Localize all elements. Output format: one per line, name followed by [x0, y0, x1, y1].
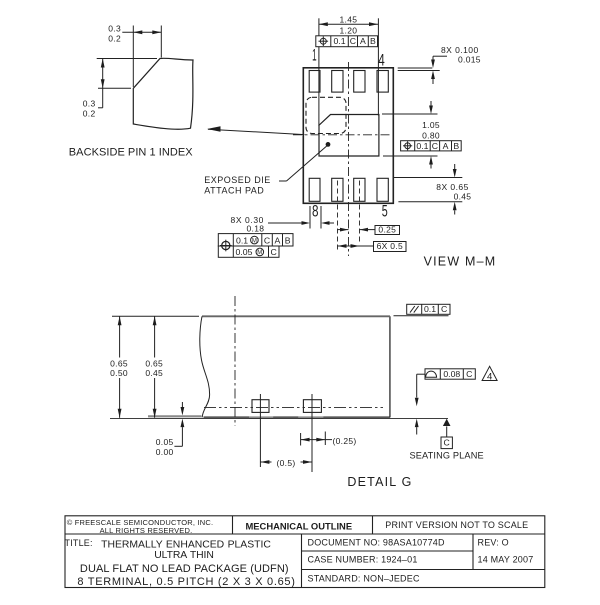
svg-text:C: C [444, 438, 450, 448]
svg-text:(0.5): (0.5) [277, 458, 296, 468]
svg-text:1.20: 1.20 [340, 25, 358, 35]
svg-text:BACKSIDE PIN 1 INDEX: BACKSIDE PIN 1 INDEX [69, 147, 193, 159]
terminal 2 centerline [311, 394, 313, 472]
svg-text:EXPOSED DIE: EXPOSED DIE [204, 175, 271, 185]
terminal 2 cross-section rect [303, 400, 321, 413]
vertical dash-dot datum line in side view [234, 296, 236, 426]
svg-text:TITLE:: TITLE: [65, 538, 93, 548]
svg-text:0.05: 0.05 [236, 247, 253, 257]
datum C box [441, 437, 452, 449]
svg-text:14 MAY 2007: 14 MAY 2007 [478, 554, 534, 564]
svg-text:ALL RIGHTS RESERVED.: ALL RIGHTS RESERVED. [100, 526, 193, 535]
svg-text:C: C [264, 235, 270, 245]
white backgrounds for height dim texts [108, 358, 130, 379]
svg-text:C: C [441, 304, 447, 314]
pin 7 centerline (dashed) [337, 181, 339, 252]
pin 2 (top row) [332, 71, 343, 93]
svg-text:5: 5 [382, 203, 388, 221]
svg-text:M: M [257, 250, 262, 256]
svg-text:CASE NUMBER: 1924–01: CASE NUMBER: 1924–01 [308, 554, 418, 564]
svg-text:0.45: 0.45 [145, 368, 163, 378]
svg-text:(0.25): (0.25) [333, 436, 357, 446]
svg-text:THERMALLY ENHANCED PLASTIC: THERMALLY ENHANCED PLASTIC [101, 540, 271, 551]
svg-text:6X 0.5: 6X 0.5 [377, 241, 403, 251]
pin 3 (top row) [354, 71, 365, 93]
title block row line under document no [302, 550, 474, 552]
svg-text:SEATING PLANE: SEATING PLANE [410, 451, 484, 461]
svg-text:A: A [443, 141, 449, 151]
dimension 8X 0.100/0.015: extension lines and arrows [433, 55, 447, 57]
title block divider document | rev [472, 534, 474, 570]
svg-text:MECHANICAL OUTLINE: MECHANICAL OUTLINE [245, 521, 352, 532]
svg-text:0.2: 0.2 [108, 33, 121, 43]
title block divider mechanical outline | print version [372, 516, 374, 534]
leader from coplanarity frame down to terminal line [417, 373, 425, 375]
svg-text:A: A [275, 235, 281, 245]
pin 8 (bottom row) [309, 178, 320, 201]
dimension 8X 0.30/0.18: extension lines and arrows [309, 206, 311, 229]
svg-text:B: B [453, 141, 459, 151]
dimension (0.25) line and arrows [301, 439, 326, 441]
svg-text:8X 0.100: 8X 0.100 [441, 45, 479, 55]
title block row line under case number [302, 569, 545, 571]
svg-text:DETAIL G: DETAIL G [347, 475, 412, 489]
svg-text:M: M [252, 238, 257, 244]
seating plane datum symbol (filled triangle) [443, 419, 451, 426]
svg-text:0.3: 0.3 [108, 23, 121, 33]
title block divider copyright | mechanical outline [232, 516, 234, 534]
svg-text:C: C [350, 36, 356, 46]
backside detail: horizontal extension lines for vertical dim [97, 58, 157, 60]
svg-text:DUAL FLAT NO LEAD PACKAGE (UDF: DUAL FLAT NO LEAD PACKAGE (UDFN) [80, 563, 289, 575]
dimension 0.65/0.45 line and arrows [154, 316, 156, 418]
feature control frame (top): position 0.1 C A B [316, 36, 378, 47]
svg-text:0.08: 0.08 [443, 369, 460, 379]
svg-text:0.2: 0.2 [83, 108, 96, 118]
top edge extension to left (for height dims) [112, 315, 199, 317]
svg-text:0.1: 0.1 [416, 141, 428, 151]
white background for (0.5) text [272, 457, 301, 468]
svg-text:0.1: 0.1 [424, 304, 436, 314]
svg-text:8: 8 [312, 203, 319, 221]
svg-text:0.3: 0.3 [83, 98, 96, 108]
terminal pad bottom segments (gray) [148, 415, 202, 417]
title block row line under header [65, 533, 545, 535]
terminal 1 cross-section rect [252, 400, 269, 413]
reference box 6X 0.5 [374, 242, 407, 252]
pin 6 centerline (dashed) [359, 181, 361, 243]
horizontal dash-dot-dot line through terminals [204, 406, 385, 408]
svg-text:4: 4 [487, 371, 493, 382]
vertical centerline of package [348, 62, 350, 256]
dimension 1.45/1.20: extension lines [318, 18, 320, 126]
dimension 0.25 (pad to pin center): arrows and leader to box [337, 229, 349, 231]
svg-text:ATTACH PAD: ATTACH PAD [204, 185, 264, 195]
backside detail: 0.3/0.2 vertical dim line, arrows and leader [102, 59, 104, 108]
dimension 8X 0.65/0.45: extension lines and arrows [394, 177, 462, 179]
svg-text:0.1: 0.1 [236, 235, 248, 245]
backside pin 1 index pad shape [133, 58, 193, 129]
svg-text:0.015: 0.015 [458, 55, 481, 65]
svg-text:PRINT VERSION NOT TO SCALE: PRINT VERSION NOT TO SCALE [385, 520, 528, 530]
backside detail: 0.3/0.2 horizontal dim line and arrows [122, 31, 161, 33]
parallelism frame // 0.1 C [407, 304, 450, 314]
svg-text:0.05: 0.05 [156, 437, 174, 447]
title block divider title | document [301, 534, 303, 588]
svg-text:0.00: 0.00 [156, 447, 174, 457]
reference box 0.25 [375, 226, 400, 235]
thermal via dot on die pad [326, 142, 331, 147]
note triangle 4 [482, 366, 497, 380]
leader arrow to backside pin 1 index detail [208, 129, 305, 134]
svg-text:C: C [271, 247, 277, 257]
exposed die attach pad (solid, chamfered corner) [319, 115, 379, 157]
break line (wavy) on left of side view [200, 316, 210, 417]
svg-text:ULTRA THIN: ULTRA THIN [154, 550, 213, 561]
svg-text:0.65: 0.65 [145, 358, 163, 368]
horizontal centerline of package [293, 134, 390, 136]
pin 6 (bottom row) [354, 178, 365, 201]
svg-text:4: 4 [378, 51, 385, 69]
feature control frame (bottom, two rows): position 0.1(M) C A B / 0.05(M) C [218, 234, 293, 258]
dimension 0.05/0.00 arrows and leader [181, 402, 183, 407]
svg-text:8X 0.65: 8X 0.65 [436, 182, 468, 192]
svg-text:0.25: 0.25 [378, 225, 396, 235]
dimension 1.45/1.20: dimension line and arrows [319, 23, 378, 25]
package body outline (top view) [303, 68, 393, 204]
svg-text:STANDARD: NON–JEDEC: STANDARD: NON–JEDEC [308, 574, 420, 584]
svg-text:0.50: 0.50 [110, 368, 128, 378]
top edge extension to right (for parallelism callout) [394, 315, 449, 317]
svg-text:C: C [432, 141, 438, 151]
svg-text:1.05: 1.05 [422, 120, 440, 130]
svg-text:0.80: 0.80 [422, 131, 440, 141]
svg-text:8 TERMINAL, 0.5 PITCH (2 X 3 X: 8 TERMINAL, 0.5 PITCH (2 X 3 X 0.65) [77, 576, 295, 588]
pin 5 (bottom row) [377, 178, 388, 201]
title block outer border [65, 516, 545, 588]
coplanarity frame (half-moon) 0.08 C [425, 369, 475, 379]
backside detail: extension line right (chamfer top vertical) [160, 26, 162, 58]
pin 4 (top row) [377, 71, 388, 93]
dimension 1.05/0.80: extension lines and arrows [382, 113, 438, 115]
svg-text:0.1: 0.1 [333, 36, 345, 46]
pin 1 (top row) [309, 71, 320, 93]
svg-text:DOCUMENT NO: 98ASA10774D: DOCUMENT NO: 98ASA10774D [308, 538, 445, 548]
svg-text:A: A [360, 36, 366, 46]
side view body bottom edge [204, 416, 391, 418]
svg-text:1.45: 1.45 [340, 15, 358, 25]
dimension (0.5) line and arrows [260, 461, 312, 463]
backside detail: extension line left (chamfer bottom vertical) [132, 26, 134, 88]
svg-text:REV: O: REV: O [478, 538, 509, 548]
svg-text:VIEW M–M: VIEW M–M [424, 255, 497, 269]
svg-text:B: B [285, 235, 291, 245]
svg-text:1: 1 [312, 47, 317, 65]
side view body top edge [202, 315, 390, 317]
svg-text:0.45: 0.45 [454, 192, 472, 202]
terminal 1 centerline [259, 394, 261, 467]
svg-text:B: B [370, 36, 376, 46]
dimension (0.25) extension lines [300, 433, 302, 446]
svg-text:0.65: 0.65 [110, 358, 128, 368]
svg-text:C: C [466, 369, 472, 379]
leader from EXPOSED DIE ATTACH PAD label to pad dot [279, 180, 287, 182]
pin 7 (bottom row) [332, 178, 343, 201]
dimension 0.65/0.50 line and arrows [119, 316, 121, 418]
dashed backside pad outline (hidden line, rounded) [306, 97, 346, 133]
side view body right edge [389, 316, 391, 417]
dimension 6X 0.5 (pin pitch): arrows and leader to box [338, 245, 360, 247]
seating plane line [110, 417, 448, 419]
feature control frame (middle): position 0.1 C A B [401, 141, 462, 151]
svg-text:0.18: 0.18 [247, 224, 265, 234]
